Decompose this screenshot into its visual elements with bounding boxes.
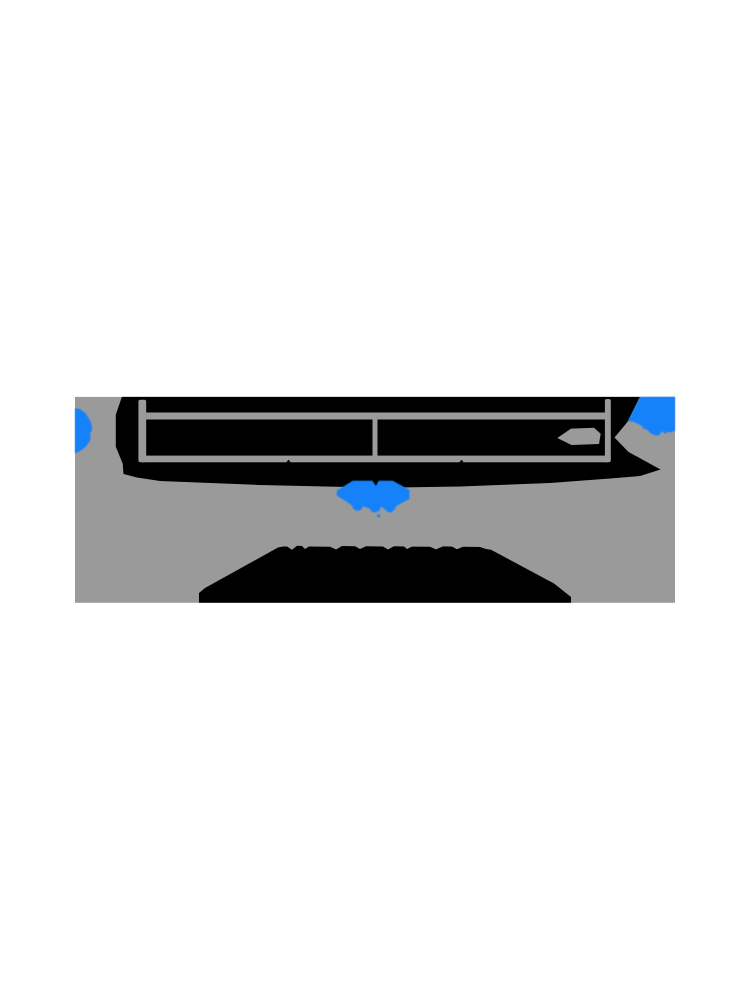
blue speck under center blob [377, 514, 380, 517]
gray backdrop band [75, 397, 675, 603]
stylus / pencil [557, 428, 600, 445]
blue blob center [337, 481, 410, 513]
blue blob left edge [75, 408, 92, 453]
foot notch right [459, 460, 464, 463]
frame top rail [142, 413, 608, 420]
blue blob top-right corner [628, 397, 675, 436]
main device silhouette [116, 397, 661, 488]
frame bottom rail [142, 456, 608, 463]
frame left vertical [138, 400, 146, 463]
foot notch left [286, 460, 291, 463]
center divider [373, 416, 378, 458]
frame right vertical [605, 399, 611, 462]
bottom text-mass slab [199, 546, 571, 603]
